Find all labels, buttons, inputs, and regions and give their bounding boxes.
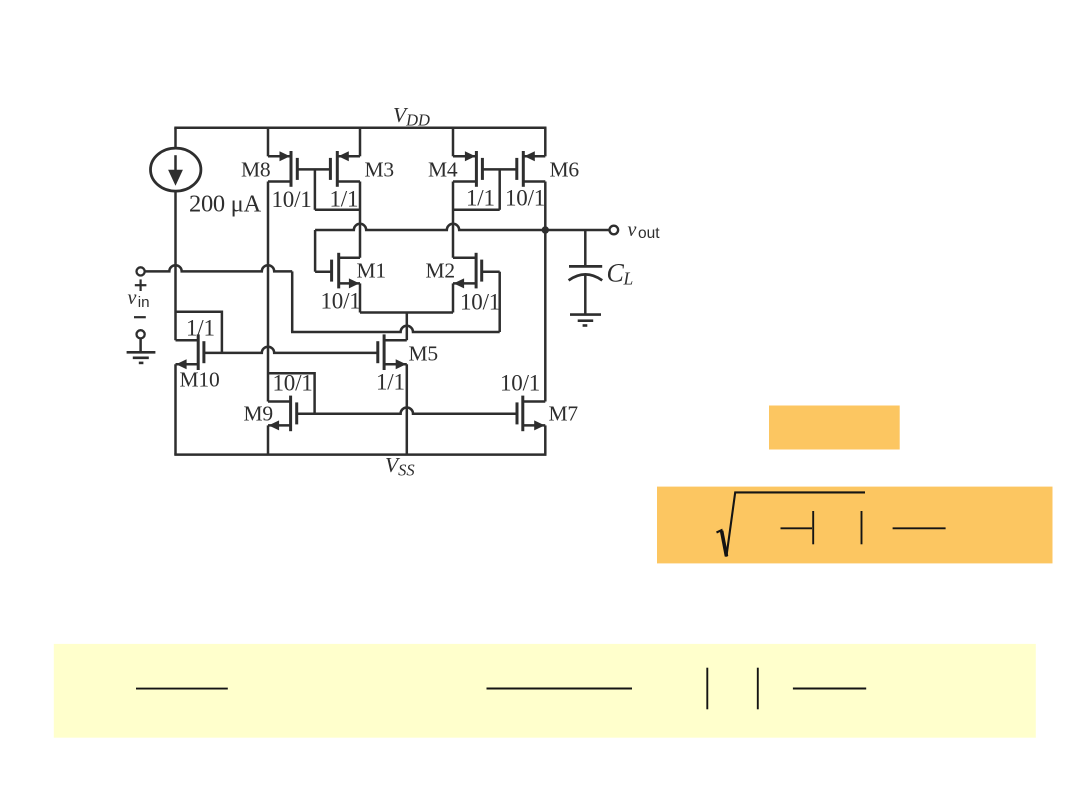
transistor M6 (PMOS 10/1): [517, 151, 546, 187]
svg-text:1/1: 1/1: [186, 315, 215, 340]
wire VDD to M6 source: [544, 128, 547, 157]
fraction bar in formula: [893, 527, 946, 529]
wire M3 diode tie: [315, 209, 360, 212]
fraction bar 3 (bottom formula): [793, 688, 866, 690]
wire VDD to M4 source: [452, 128, 455, 157]
terminal vin- (open circle): [137, 330, 145, 338]
transistor M3 (PMOS 1/1): [330, 151, 360, 187]
wire M4 gate to M6 gate: [482, 168, 516, 171]
wire vin+ horizontal: [145, 265, 292, 271]
svg-text:M4: M4: [428, 158, 458, 182]
wire M10 gate to M5 gate: [204, 347, 378, 353]
wire common source of M1/M2: [360, 311, 453, 314]
transistor M1 (NMOS 10/1): [332, 253, 360, 289]
svg-text:v: v: [628, 219, 637, 241]
svg-text:M9: M9: [244, 402, 273, 426]
svg-text:M8: M8: [241, 158, 270, 182]
minus sign in formula: [781, 527, 813, 529]
wire vin+ corner down: [291, 271, 294, 332]
wire vin+ to M2 gate riser: [291, 326, 500, 332]
svg-text:10/1: 10/1: [321, 289, 361, 314]
wire M2 gate lead: [482, 270, 500, 273]
wire VDD rail: [174, 126, 546, 129]
wire vout to CL: [584, 230, 587, 265]
minus sign: [134, 316, 146, 318]
svg-text:M3: M3: [365, 158, 394, 182]
svg-text:10/1: 10/1: [460, 290, 500, 315]
absolute value bar 2 (bottom formula): [757, 668, 759, 710]
highlight box (large orange, GB formula): [657, 487, 1053, 564]
svg-text:L: L: [623, 269, 634, 289]
svg-text:out: out: [638, 225, 660, 242]
wire tail drop to M5 drain: [406, 313, 409, 341]
wire M4 diode tie: [453, 209, 500, 212]
wire M2 source down: [452, 283, 455, 312]
transistor M5 (NMOS 1/1): [378, 334, 407, 370]
ground (CL): [570, 315, 601, 326]
wire M1 source down: [359, 283, 362, 312]
svg-text:M7: M7: [549, 402, 579, 426]
wire M6 drain down through output node to M7 drain: [544, 182, 547, 402]
svg-text:1/1: 1/1: [330, 186, 359, 211]
svg-text:1/1: 1/1: [376, 369, 405, 394]
terminal vin+ (open circle): [137, 267, 145, 275]
absolute value bar 1: [812, 511, 814, 544]
wire M8 drain down to M9 drain: [267, 182, 270, 402]
terminal vout (open circle): [610, 226, 619, 235]
svg-text:10/1: 10/1: [500, 371, 540, 396]
wire M3 drain down to M1 drain: [359, 182, 362, 258]
wire output net (M1 gate to vout): [315, 224, 609, 230]
wire M9 diode tie box: [268, 373, 315, 413]
transistor M10 (NMOS 1/1, diode connected): [176, 334, 204, 370]
transistor M9 (NMOS 10/1, diode connected): [268, 396, 297, 432]
svg-text:M2: M2: [426, 259, 455, 283]
wire VDD to M3 source: [359, 128, 362, 157]
wire gate drop to M4 diode tie: [498, 169, 501, 209]
highlight box (small orange): [769, 406, 900, 450]
wire vin- to ground: [139, 339, 142, 353]
wire M10 source to VSS: [174, 364, 177, 454]
highlight box (pale yellow, bottom formula): [54, 644, 1036, 738]
svg-text:M1: M1: [357, 259, 386, 283]
wire M9 source to VSS: [267, 425, 270, 454]
transistor M7 (NMOS 10/1): [517, 396, 545, 432]
fraction bar 1 (bottom formula): [136, 688, 228, 690]
square root radical in formula: [717, 492, 866, 556]
svg-text:10/1: 10/1: [272, 187, 312, 212]
wire VDD to M8 source: [267, 128, 270, 157]
wire M2 gate riser (to vin net): [498, 272, 501, 332]
svg-text:M6: M6: [550, 158, 580, 182]
svg-text:200 μA: 200 μA: [189, 191, 262, 218]
wire M8 gate to M3 gate: [297, 168, 330, 171]
ground (vin-): [127, 352, 156, 363]
wire M7 source to VSS: [544, 425, 547, 454]
wire M10 diode tie box: [176, 312, 222, 353]
svg-text:10/1: 10/1: [505, 185, 545, 210]
wire M1 gate lead: [315, 270, 332, 273]
wire VDD to current source: [174, 128, 177, 149]
wire gate drop to M3 diode tie: [314, 169, 317, 209]
absolute value bar 2: [861, 511, 863, 544]
svg-text:VDD: VDD: [393, 103, 430, 130]
current source 200uA (circle + arrow): [151, 148, 201, 191]
wire M9 gate to M7 gate: [297, 408, 517, 414]
wire M1 gate riser (to output net): [314, 230, 317, 272]
svg-text:in: in: [138, 294, 150, 311]
svg-text:1/1: 1/1: [466, 185, 495, 210]
plus sign: [135, 279, 147, 291]
wire CL to ground: [584, 275, 587, 314]
wire M5 source to VSS: [406, 364, 409, 454]
wire M4 drain down to M2 drain: [452, 182, 455, 258]
wire current source to M10 drain: [174, 191, 177, 340]
svg-text:M5: M5: [409, 342, 438, 366]
transistor M2 (NMOS 10/1): [453, 253, 482, 289]
fraction bar 2 (bottom formula): [487, 688, 633, 690]
svg-text:v: v: [128, 287, 137, 309]
transistor M4 (PMOS 1/1): [453, 151, 482, 187]
capacitor CL: [569, 266, 603, 280]
absolute value bar 1 (bottom formula): [706, 668, 708, 710]
transistor M8 (PMOS 10/1): [268, 151, 297, 187]
junction output node: [542, 226, 549, 233]
wire VSS rail: [174, 453, 546, 456]
svg-text:C: C: [607, 259, 625, 288]
svg-text:VSS: VSS: [385, 453, 415, 480]
svg-text:M10: M10: [180, 367, 220, 391]
